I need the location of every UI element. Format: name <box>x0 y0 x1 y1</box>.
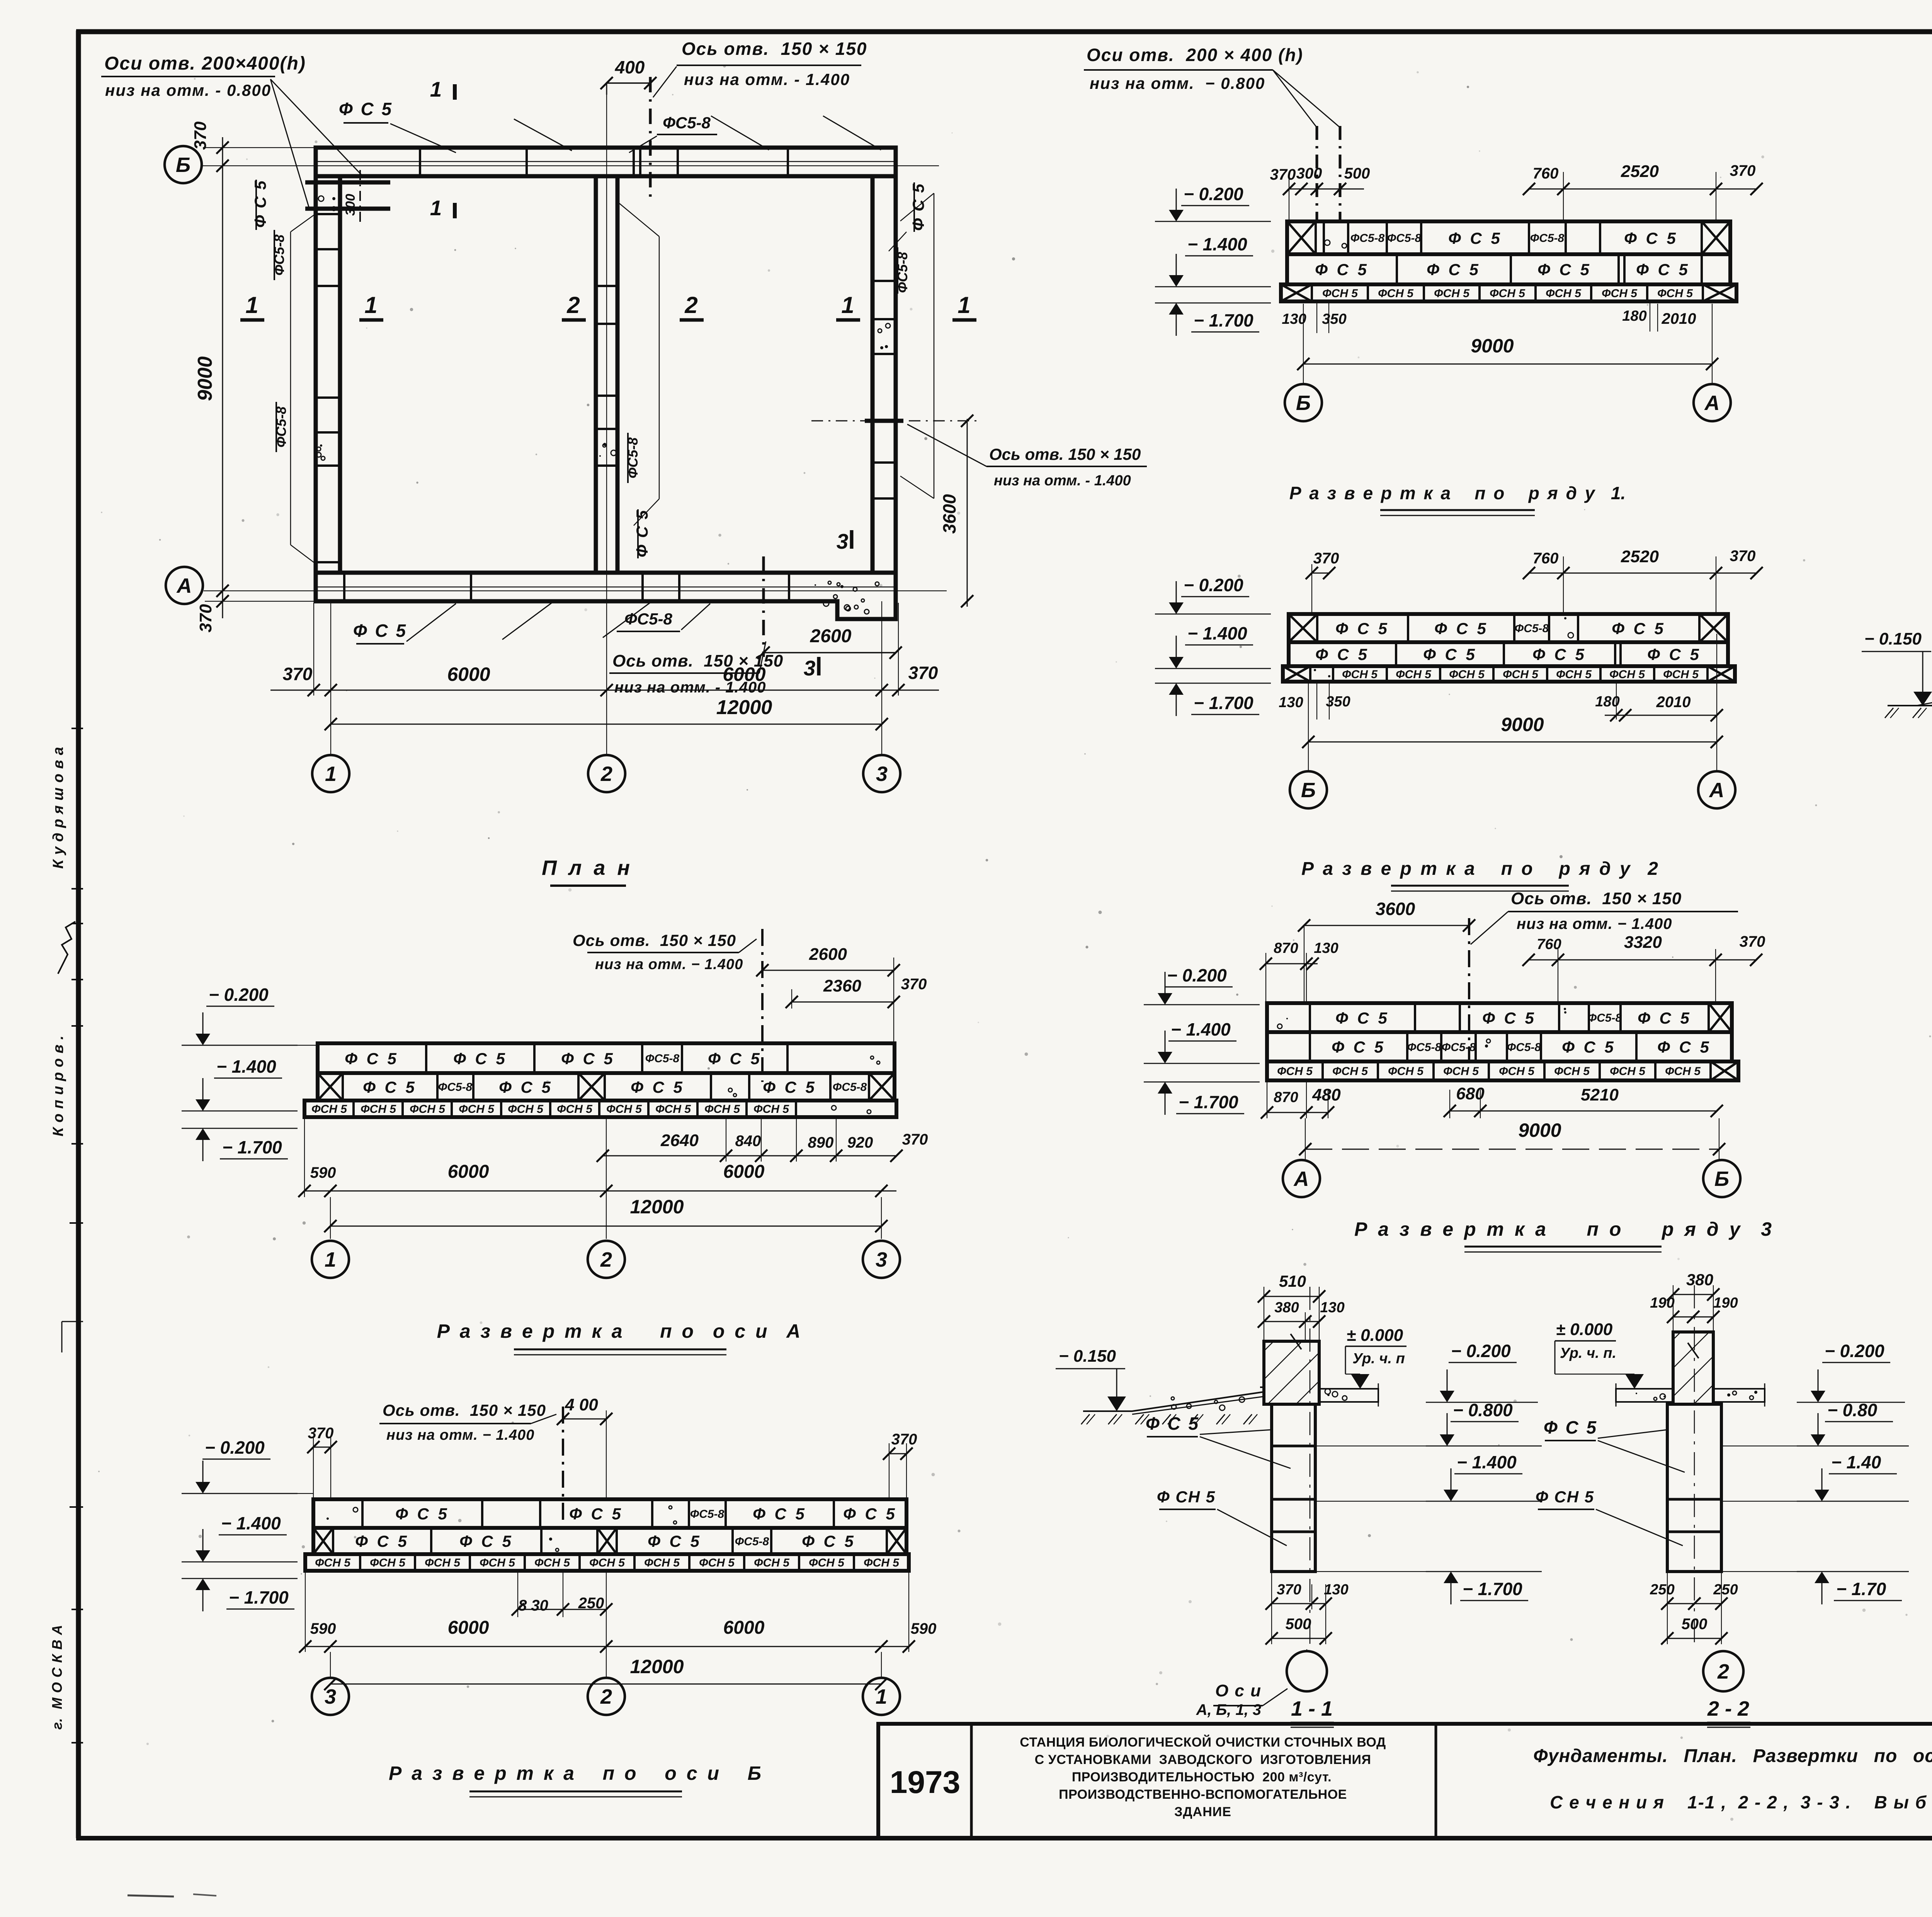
section 2-2: foundation blocks <box>1667 1404 1721 1572</box>
svg-text:370: 370 <box>902 1131 928 1148</box>
svg-text:ПРОИЗВОДИТЕЛЬНОСТЬЮ 200 м³/су: ПРОИЗВОДИТЕЛЬНОСТЬЮ 200 м³/сут. <box>1072 1770 1332 1784</box>
svg-text:Р а з в е р т к а п о р я: Р а з в е р т к а п о р я д у 1. <box>1289 483 1626 503</box>
svg-text:ФСН 5: ФСН 5 <box>1434 287 1470 300</box>
plan: bottom labels FS5 / FS5-8 with leader slashes <box>353 603 710 644</box>
svg-text:Ф С 5: Ф С 5 <box>353 621 407 641</box>
title block: year 1973 <box>890 1765 960 1800</box>
svg-text:1: 1 <box>876 1685 887 1708</box>
svg-text:А: А <box>176 574 192 597</box>
svg-text:ЗДАНИЕ: ЗДАНИЕ <box>1174 1805 1231 1819</box>
svg-text:ФСН 5: ФСН 5 <box>1665 1065 1701 1078</box>
svg-text:6000: 6000 <box>448 1618 489 1638</box>
svg-text:ФСН 5: ФСН 5 <box>311 1103 347 1116</box>
svg-text:ФСН 5: ФСН 5 <box>1342 668 1378 681</box>
title: Razvertka po ryadu 1 <box>1289 483 1626 515</box>
svg-text:9000: 9000 <box>1518 1119 1561 1141</box>
axis circle A (ryadu 1) <box>1694 384 1731 421</box>
svg-text:130: 130 <box>1314 940 1338 956</box>
plan: opening axes 200x400 at left wall <box>305 170 390 224</box>
svg-text:Ф С 5: Ф С 5 <box>1636 260 1690 279</box>
svg-text:370: 370 <box>901 976 927 993</box>
svg-text:1: 1 <box>325 1248 336 1271</box>
axis circle 1 (osi A) <box>312 1241 349 1278</box>
svg-text:Р а з в е р т к а п о о с: Р а з в е р т к а п о о с и Б <box>389 1762 762 1784</box>
svg-text:− 0.150: − 0.150 <box>1864 629 1922 648</box>
svg-text:низ на отм. − 1.400: низ на отм. − 1.400 <box>1517 915 1672 932</box>
svg-text:590: 590 <box>911 1620 937 1637</box>
svg-text:9000: 9000 <box>1471 335 1514 357</box>
svg-text:ФСН 5: ФСН 5 <box>704 1103 740 1116</box>
svg-text:3320: 3320 <box>1624 933 1662 952</box>
svg-text:Ф С 5: Ф С 5 <box>499 1078 553 1096</box>
svg-text:Ф С 5: Ф С 5 <box>753 1505 807 1523</box>
svg-text:ФСН 5: ФСН 5 <box>1663 668 1699 681</box>
svg-text:± 0.000: ± 0.000 <box>1347 1326 1403 1345</box>
ryadu 1: dims below 130 350 / 180 2010 <box>1282 301 1696 333</box>
svg-text:130: 130 <box>1320 1300 1344 1316</box>
svg-text:Ось отв. 150 × 150: Ось отв. 150 × 150 <box>682 39 867 59</box>
svg-text:± 0.000: ± 0.000 <box>1556 1320 1613 1339</box>
svg-text:− 1.400: − 1.400 <box>1187 234 1247 254</box>
svg-text:190: 190 <box>1713 1295 1738 1311</box>
svg-text:ФСН 5: ФСН 5 <box>754 1556 790 1569</box>
svg-text:Оси отв. 200×400(h): Оси отв. 200×400(h) <box>104 53 306 74</box>
svg-text:− 1.400: − 1.400 <box>1171 1019 1231 1039</box>
svg-text:ФСН 5: ФСН 5 <box>1490 287 1526 300</box>
svg-text:1: 1 <box>430 196 442 220</box>
section 2-2: elevation marks right <box>1721 1341 1909 1604</box>
left margin: Kopirov. (rotated) <box>50 1026 83 1144</box>
ryadu 1: label Osi otv 200x400(h) <box>1084 45 1340 128</box>
svg-text:250: 250 <box>1650 1582 1674 1598</box>
svg-text:2600: 2600 <box>809 945 847 964</box>
elevation strip: razvertka po ryadu 2 <box>1283 614 1735 682</box>
svg-text:Ф С 5: Ф С 5 <box>843 1505 897 1523</box>
section 1-1: foundation blocks FS5/FSN5 <box>1272 1404 1315 1572</box>
svg-text:− 0.200: − 0.200 <box>209 985 269 1005</box>
svg-text:250: 250 <box>1713 1582 1738 1598</box>
elevation strip: razvertka po osi B <box>305 1499 909 1571</box>
svg-text:Ф СН 5: Ф СН 5 <box>1536 1488 1594 1506</box>
svg-text:130: 130 <box>1279 694 1303 711</box>
svg-text:1: 1 <box>364 292 377 318</box>
svg-text:3: 3 <box>325 1685 336 1708</box>
svg-text:ФСН 5: ФСН 5 <box>1602 287 1638 300</box>
svg-text:370: 370 <box>283 664 313 684</box>
title: section 2-2 <box>1707 1697 1750 1727</box>
svg-text:ФСН 5: ФСН 5 <box>644 1556 680 1569</box>
svg-text:Ф С 5: Ф С 5 <box>1315 645 1369 663</box>
svg-text:Ур. ч. п: Ур. ч. п <box>1352 1351 1405 1367</box>
plan: left wall joints and concrete blocks <box>316 196 340 562</box>
svg-text:ФСН 5: ФСН 5 <box>699 1556 735 1569</box>
left margin: g. MOSKVA (rotated) <box>49 1609 83 1743</box>
section 1-1: top dims 510 380 130 <box>1258 1272 1345 1341</box>
ryadu 1: opening axes dashed above strip <box>1317 126 1340 221</box>
svg-text:ФСН 5: ФСН 5 <box>315 1556 351 1569</box>
svg-text:370: 370 <box>891 1431 917 1448</box>
svg-text:510: 510 <box>1279 1272 1306 1290</box>
svg-text:370: 370 <box>196 604 215 633</box>
svg-text:3: 3 <box>876 762 888 786</box>
axis circle B (ryadu 2) <box>1290 771 1327 808</box>
label: Os otv 150x150 / niz na otm -1.400 (below plan) <box>609 641 783 696</box>
svg-text:380: 380 <box>1274 1300 1299 1316</box>
plan: monolithic concrete zone bottom right <box>815 581 879 614</box>
svg-text:ФСН 5: ФСН 5 <box>534 1556 570 1569</box>
svg-text:1: 1 <box>430 77 442 101</box>
title: Razvertka po osi B <box>389 1762 762 1797</box>
title: Razvertka po osi A <box>437 1320 801 1355</box>
osi A: dims below 2640 840 890 920 370 <box>597 1117 928 1162</box>
osi A: dims 590 6000 6000 <box>298 1117 896 1197</box>
svg-text:А: А <box>1293 1167 1309 1191</box>
svg-text:130: 130 <box>1324 1582 1348 1598</box>
axis circle 3 (osi A) <box>863 1241 900 1278</box>
ryadu 1: elevation marks -0.200 -1.400 -1.700 <box>1155 184 1271 336</box>
svg-text:ФСН 5: ФСН 5 <box>864 1556 900 1569</box>
title: section 1-1 <box>1291 1697 1334 1727</box>
svg-text:− 1.700: − 1.700 <box>1179 1092 1238 1112</box>
svg-text:370: 370 <box>191 121 210 150</box>
svg-text:− 1.400: − 1.400 <box>221 1513 281 1533</box>
svg-text:760: 760 <box>1533 165 1559 182</box>
svg-text:2520: 2520 <box>1621 547 1659 566</box>
svg-text:− 0.200: − 0.200 <box>1825 1341 1884 1361</box>
svg-text:г. М О С К В А: г. М О С К В А <box>49 1624 65 1730</box>
plan: outer walls <box>316 148 896 619</box>
svg-text:ФСН 5: ФСН 5 <box>1388 1065 1424 1078</box>
svg-text:6000: 6000 <box>723 1618 765 1638</box>
section 3-3: ground line and soil <box>1885 692 1932 718</box>
osi B: top 370 dims <box>307 1425 917 1499</box>
svg-text:12000: 12000 <box>630 1196 684 1218</box>
plan: vertical dimension 9000 with 370 offsets <box>191 121 316 633</box>
svg-text:Ф С 5: Ф С 5 <box>1612 619 1666 638</box>
axis circle B (ryadu 3) <box>1703 1160 1740 1197</box>
svg-text:низ на отм. - 1.400: низ на отм. - 1.400 <box>684 70 850 88</box>
svg-text:Ф С 5: Ф С 5 <box>1332 1038 1386 1056</box>
svg-text:− 1.400: − 1.400 <box>1187 623 1247 643</box>
svg-text:6000: 6000 <box>448 1162 489 1182</box>
svg-text:− 1.700: − 1.700 <box>1463 1579 1522 1599</box>
svg-text:ФС5-8: ФС5-8 <box>1387 232 1422 245</box>
svg-text:2010: 2010 <box>1656 694 1691 711</box>
svg-text:3600: 3600 <box>939 494 959 534</box>
svg-text:− 1.400: − 1.400 <box>1457 1452 1517 1472</box>
svg-text:ФС5-8: ФС5-8 <box>1530 232 1565 245</box>
svg-text:1 - 1: 1 - 1 <box>1291 1697 1333 1720</box>
svg-text:ФСН 5: ФСН 5 <box>809 1556 845 1569</box>
svg-text:С УСТАНОВКАМИ ЗАВОДСКОГО ИЗГ: С УСТАНОВКАМИ ЗАВОДСКОГО ИЗГОТОВЛЕНИЯ <box>1035 1752 1371 1767</box>
left margin: small tick marks <box>62 1223 83 1507</box>
svg-text:500: 500 <box>1286 1616 1311 1633</box>
svg-text:Ф С 5: Ф С 5 <box>1146 1414 1200 1434</box>
svg-text:370: 370 <box>308 1425 334 1442</box>
svg-text:Ф С 5: Ф С 5 <box>569 1505 623 1523</box>
svg-text:− 1.700: − 1.700 <box>222 1137 282 1157</box>
title block: project description text <box>1020 1735 1386 1819</box>
svg-text:ФС5-8: ФС5-8 <box>438 1081 473 1094</box>
svg-text:370: 370 <box>1730 548 1756 565</box>
svg-text:Ось отв. 150 × 150: Ось отв. 150 × 150 <box>1511 889 1682 908</box>
section 2-2: top dims 380 190 190 <box>1650 1271 1738 1332</box>
svg-text:2: 2 <box>600 1685 612 1708</box>
plan: left wall labels FS5 / FS5-8 with leader <box>251 180 314 563</box>
axis circle 1 (plan bottom) <box>312 755 349 792</box>
svg-text:Ось отв. 150 × 150: Ось отв. 150 × 150 <box>612 651 783 670</box>
svg-text:380: 380 <box>1686 1271 1713 1289</box>
axis circle A (plan left bottom) <box>166 567 203 604</box>
ryadu 1: top dims 760 2520 370 <box>1523 162 1763 221</box>
svg-text:− 0.800: − 0.800 <box>1453 1400 1513 1420</box>
svg-text:ФСН 5: ФСН 5 <box>370 1556 406 1569</box>
label: Os otv 150x150 / niz na otm -1.400 (top) <box>653 39 867 97</box>
svg-text:ФСН 5: ФСН 5 <box>1449 668 1485 681</box>
svg-text:500: 500 <box>1344 165 1370 182</box>
svg-text:ФСН 5: ФСН 5 <box>410 1103 446 1116</box>
svg-text:3600: 3600 <box>1376 899 1415 919</box>
axis circle B (ryadu 1) <box>1285 384 1322 421</box>
svg-text:ФСН 5: ФСН 5 <box>606 1103 642 1116</box>
svg-text:ФС5-8: ФС5-8 <box>624 610 672 628</box>
svg-text:ПРОИЗВОДСТВЕННО-ВСПОМОГАТЕЛЬНО: ПРОИЗВОДСТВЕННО-ВСПОМОГАТЕЛЬНОЕ <box>1059 1787 1347 1802</box>
ryadu 3: dim 9000 and circles A B <box>1299 1118 1725 1159</box>
svg-text:ФСН 5: ФСН 5 <box>1499 1065 1535 1078</box>
svg-text:ФСН 5: ФСН 5 <box>1396 668 1432 681</box>
svg-text:ФСН 5: ФСН 5 <box>508 1103 544 1116</box>
svg-text:920: 920 <box>847 1134 873 1151</box>
svg-text:низ на отм. - 1.400: низ на отм. - 1.400 <box>614 679 766 696</box>
svg-text:350: 350 <box>1322 311 1346 327</box>
svg-text:ФСН 5: ФСН 5 <box>361 1103 396 1116</box>
svg-text:ФСН 5: ФСН 5 <box>753 1103 789 1116</box>
svg-text:− 1.700: − 1.700 <box>1194 310 1253 330</box>
svg-text:870: 870 <box>1274 1089 1298 1106</box>
svg-text:Ф С 5: Ф С 5 <box>1537 260 1592 279</box>
svg-text:Ф С 5: Ф С 5 <box>1544 1417 1598 1437</box>
svg-text:ФСН 5: ФСН 5 <box>655 1103 691 1116</box>
svg-text:− 1.70: − 1.70 <box>1836 1579 1886 1599</box>
svg-text:ФСН 5: ФСН 5 <box>589 1556 625 1569</box>
svg-text:ФСН 5: ФСН 5 <box>459 1103 495 1116</box>
svg-text:− 0.80: − 0.80 <box>1827 1400 1878 1420</box>
ryadu 3: dims 870 130 / 760 3320 370 <box>1260 933 1765 1003</box>
svg-text:Ось отв. 150 × 150: Ось отв. 150 × 150 <box>383 1401 546 1419</box>
svg-text:2: 2 <box>1717 1660 1729 1683</box>
axis circle A (ryadu 3) <box>1283 1160 1320 1197</box>
svg-text:2: 2 <box>600 762 612 786</box>
svg-text:ФС5-8: ФС5-8 <box>1407 1041 1442 1054</box>
svg-text:ФСН 5: ФСН 5 <box>1657 287 1693 300</box>
svg-text:2520: 2520 <box>1621 162 1659 181</box>
svg-text:4 00: 4 00 <box>565 1395 598 1414</box>
svg-text:ФСН 5: ФСН 5 <box>1546 287 1582 300</box>
axis circle 2 (osi B) <box>588 1678 625 1715</box>
left margin: signature squiggle <box>58 922 83 980</box>
plan: middle wall joints <box>596 286 617 466</box>
svg-text:590: 590 <box>310 1620 336 1637</box>
svg-text:12000: 12000 <box>630 1656 684 1677</box>
svg-text:Ф СН 5: Ф СН 5 <box>1157 1488 1216 1506</box>
svg-text:низ на отм. − 1.400: низ на отм. − 1.400 <box>386 1427 534 1443</box>
section 2-2: labels FS5 FSN5 <box>1536 1417 1685 1546</box>
svg-text:А: А <box>1709 779 1725 802</box>
svg-text:− 0.200: − 0.200 <box>1184 575 1243 595</box>
svg-text:2: 2 <box>566 292 580 318</box>
section 1-1: axis line and circle <box>1196 1287 1327 1718</box>
elevation strip: razvertka po ryadu 3 <box>1267 1003 1738 1080</box>
svg-text:К у д р я ш о в а: К у д р я ш о в а <box>50 747 66 869</box>
svg-text:Ось отв. 150 × 150: Ось отв. 150 × 150 <box>573 931 736 949</box>
svg-text:370: 370 <box>1313 550 1339 567</box>
axis circle B (plan left top) <box>165 146 202 183</box>
svg-text:Ф С 5: Ф С 5 <box>345 1050 399 1068</box>
ryadu 3: elevation marks <box>1144 965 1260 1115</box>
svg-text:300: 300 <box>343 194 358 216</box>
svg-text:− 0.150: − 0.150 <box>1059 1347 1116 1366</box>
svg-text:ФСН 5: ФСН 5 <box>1378 287 1414 300</box>
svg-text:Ф С 5: Ф С 5 <box>631 1078 685 1096</box>
svg-text:Ф С 5: Ф С 5 <box>1423 645 1477 663</box>
svg-text:190: 190 <box>1650 1295 1674 1311</box>
label: Os otv 150x150 above ryadu 3 <box>1471 889 1738 944</box>
section 1-1: -0.150 elevation at ground <box>1056 1347 1126 1411</box>
ryadu 3: dim 3600 <box>1298 899 1475 1003</box>
svg-text:Б: Б <box>1714 1167 1729 1191</box>
plan: bottom dimension row 370/6000/6000/370 <box>270 603 939 696</box>
svg-text:ФСН 5: ФСН 5 <box>1503 668 1539 681</box>
plan: section 1-1 cut bars at top band <box>430 77 455 220</box>
svg-text:− 1.400: − 1.400 <box>216 1056 276 1077</box>
svg-text:Ф С 5: Ф С 5 <box>1482 1009 1536 1027</box>
svg-text:Ф С 5: Ф С 5 <box>1532 645 1587 663</box>
svg-text:9000: 9000 <box>1501 714 1544 735</box>
svg-text:Ф С 5: Ф С 5 <box>708 1050 762 1068</box>
svg-text:ФСН 5: ФСН 5 <box>1322 287 1358 300</box>
section 2-2: axis line and circle 2 <box>1694 1285 1743 1691</box>
svg-text:5210: 5210 <box>1581 1085 1619 1104</box>
svg-text:Р а з в е р т к а п о р: Р а з в е р т к а п о р я д у 3 <box>1354 1218 1772 1240</box>
svg-text:6000: 6000 <box>447 663 490 685</box>
plan: right wall labels FS5 / FS5-8 with leader <box>889 182 934 498</box>
section 2-2: bottom dims 250 250 500 <box>1650 1572 1738 1645</box>
svg-text:Ф С 5: Ф С 5 <box>339 99 393 119</box>
ryadu 2: top dims <box>1306 547 1763 614</box>
svg-text:480: 480 <box>1312 1085 1341 1104</box>
svg-text:1: 1 <box>245 292 258 318</box>
svg-text:Б: Б <box>1301 779 1316 802</box>
svg-text:ФСН 5: ФСН 5 <box>1443 1065 1479 1078</box>
svg-text:Ф С 5: Ф С 5 <box>363 1078 417 1096</box>
svg-text:Р а з в е р т к а п о р я: Р а з в е р т к а п о р я д у 2 <box>1301 859 1658 879</box>
svg-text:Ф С 5: Ф С 5 <box>251 180 269 228</box>
plan: block joints bottom band <box>316 573 896 601</box>
svg-text:− 0.200: − 0.200 <box>1451 1341 1511 1361</box>
svg-text:Ф С 5: Ф С 5 <box>1427 260 1481 279</box>
section 2-2: floor slabs both sides <box>1616 1383 1765 1407</box>
svg-text:2640: 2640 <box>660 1131 699 1150</box>
svg-text:ФС5-8: ФС5-8 <box>645 1052 680 1065</box>
svg-text:Ф С 5: Ф С 5 <box>453 1050 507 1068</box>
osi A: opening axis and dims 2600 2360 370 above <box>573 929 927 1082</box>
svg-text:Б: Б <box>1296 391 1311 415</box>
svg-text:2600: 2600 <box>810 626 852 646</box>
svg-text:180: 180 <box>1622 308 1646 324</box>
svg-text:Ур. ч. п.: Ур. ч. п. <box>1560 1345 1616 1361</box>
svg-text:− 1.700: − 1.700 <box>229 1587 289 1607</box>
svg-text:400: 400 <box>615 57 645 77</box>
svg-text:ФС5-8: ФС5-8 <box>663 114 711 132</box>
ryadu 1: top dims 370 300 500 <box>1270 165 1370 221</box>
ryadu 2: dims below 130 350 / 180 2010 <box>1279 682 1723 721</box>
osi B: dim 12000 and circles 3 2 1 <box>324 1617 888 1690</box>
svg-text:ФСН 5: ФСН 5 <box>1332 1065 1368 1078</box>
plan: section mark digits 1 1 2 2 1 1 <box>240 292 976 320</box>
svg-text:ФС5-8: ФС5-8 <box>735 1535 769 1548</box>
svg-text:370: 370 <box>1277 1582 1301 1598</box>
svg-text:130: 130 <box>1282 311 1306 327</box>
svg-text:ФСН 5: ФСН 5 <box>557 1103 593 1116</box>
svg-text:1: 1 <box>325 762 337 786</box>
svg-text:Оси отв. 200 × 400 (h): Оси отв. 200 × 400 (h) <box>1087 45 1303 65</box>
title block: sheet subject <box>1533 1746 1932 1812</box>
elevation strip: razvertka po osi A <box>304 1043 896 1117</box>
plan: axis lines <box>203 82 947 754</box>
title block frame and dividers <box>878 1724 1932 1838</box>
plan: bottom dimension 12000 <box>325 696 888 730</box>
svg-text:Ф С 5: Ф С 5 <box>802 1532 856 1550</box>
svg-text:760: 760 <box>1533 550 1559 567</box>
svg-text:Б: Б <box>176 153 190 177</box>
section 2-2: label +-0.000 Ur.ch.p. <box>1555 1320 1644 1389</box>
osi A: dim 12000 and circles 1 2 3 <box>324 1117 888 1239</box>
ryadu 2: dim 9000 and circles <box>1302 634 1723 771</box>
title: Razvertka po ryadu 3 <box>1354 1218 1772 1252</box>
svg-text:Ф С 5: Ф С 5 <box>1315 260 1369 279</box>
svg-text:1: 1 <box>957 292 970 318</box>
svg-text:низ на отм. − 1.400: низ на отм. − 1.400 <box>595 956 743 973</box>
axis circle A (ryadu 2) <box>1698 771 1735 808</box>
svg-text:2 - 2: 2 - 2 <box>1707 1697 1749 1720</box>
label: Osi otv 200x400(h) / niz na otm -0.800 <box>101 53 361 211</box>
svg-text:Ф С 5: Ф С 5 <box>648 1532 702 1550</box>
svg-text:А: А <box>1704 391 1720 415</box>
svg-text:Ф С 5: Ф С 5 <box>1657 1038 1711 1056</box>
svg-text:Фундаменты. План. Развертки: Фундаменты. План. Развертки по осям А, Б… <box>1533 1746 1932 1766</box>
plan: opening axis in bottom band with 2600 dim <box>757 556 902 659</box>
svg-text:Ф С 5: Ф С 5 <box>1335 619 1389 638</box>
plan: label FS5-8 top band <box>629 114 717 153</box>
ryadu 3: dims below 870 480 / 680 5210 <box>1261 1080 1723 1119</box>
axis circle 1 (osi B) <box>863 1678 900 1715</box>
plan: middle wall labels FS5-8 / FS5 with leader <box>618 202 659 558</box>
plan: opening axis in top band (400 from axis 2) <box>600 57 656 197</box>
svg-text:ФСН 5: ФСН 5 <box>480 1556 515 1569</box>
svg-text:370: 370 <box>1740 933 1765 950</box>
svg-text:370: 370 <box>1270 166 1296 183</box>
section 1-1: elevation marks right -0.200 -0.800 -1.400 -1.700 <box>1315 1341 1542 1604</box>
svg-text:ФСН 5: ФСН 5 <box>425 1556 461 1569</box>
svg-text:Ф С 5: Ф С 5 <box>561 1050 615 1068</box>
svg-text:− 0.200: − 0.200 <box>1184 184 1243 204</box>
svg-text:низ на отм. - 1.400: низ на отм. - 1.400 <box>994 473 1131 489</box>
svg-text:ФСН 5: ФСН 5 <box>1556 668 1592 681</box>
plan: label FS5 top with leader slashes <box>339 99 881 153</box>
axis circle 3 (plan bottom) <box>863 755 900 792</box>
plan: section 3-3 cut marks at bottom right <box>804 529 852 680</box>
section 1-1: labels FS5 FSN5 with leaders <box>1146 1414 1291 1546</box>
